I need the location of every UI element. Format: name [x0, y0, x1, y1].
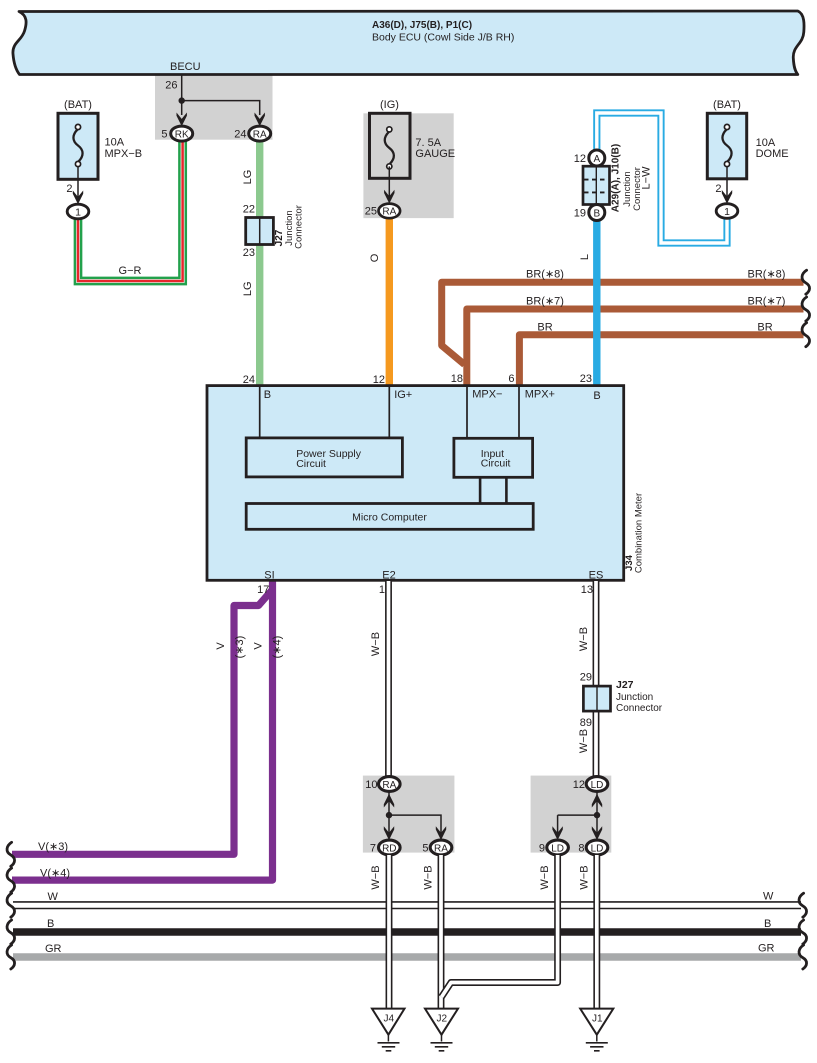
svg-text:LG: LG	[242, 281, 254, 296]
arrow up into RA 10	[384, 794, 394, 808]
micro computer box	[246, 504, 533, 530]
ground J1	[580, 1009, 613, 1051]
wire BR	[519, 335, 803, 386]
svg-text:24: 24	[234, 129, 246, 141]
svg-text:B: B	[593, 209, 600, 220]
svg-text:J2: J2	[437, 1014, 448, 1025]
svg-text:L: L	[579, 254, 591, 260]
power supply circuit box	[246, 438, 402, 477]
svg-text:Connector: Connector	[632, 167, 643, 211]
svg-text:Junction: Junction	[616, 692, 653, 703]
svg-text:5: 5	[422, 843, 428, 855]
svg-text:ES: ES	[589, 570, 604, 582]
svg-text:A29(A), J10(B): A29(A), J10(B)	[611, 144, 622, 212]
wire BR(*7)	[467, 309, 804, 386]
svg-text:J1: J1	[592, 1014, 603, 1025]
connector oval 1 (MPX-B)	[67, 204, 89, 219]
svg-text:8: 8	[578, 843, 584, 855]
wire L-W double line from DOME 1 to junction A	[597, 113, 727, 243]
svg-text:12: 12	[373, 374, 385, 386]
svg-text:1: 1	[724, 206, 730, 218]
panel BECU branch	[155, 75, 273, 139]
panel E2 branch	[363, 776, 455, 853]
ground J4	[372, 1009, 405, 1051]
arrow up into LD 12	[592, 794, 602, 808]
break B right	[799, 920, 807, 944]
svg-text:10A: 10A	[105, 137, 125, 149]
svg-text:J27: J27	[616, 679, 634, 691]
bus wire GR	[13, 953, 801, 960]
wire BR(*8)	[442, 282, 804, 364]
svg-text:O: O	[369, 253, 381, 262]
panel ES branch	[531, 776, 612, 853]
svg-text:LD: LD	[591, 780, 604, 791]
arrow down into RD 7	[384, 826, 394, 840]
svg-text:GR: GR	[45, 943, 62, 955]
svg-text:LD: LD	[551, 844, 564, 855]
svg-text:(BAT): (BAT)	[713, 99, 741, 111]
svg-text:B: B	[593, 390, 600, 402]
junction dot ES branch	[594, 812, 600, 818]
input circuit box	[454, 438, 533, 477]
svg-text:BR(∗8): BR(∗8)	[526, 269, 564, 281]
wire W-B from E2 to RA 10	[385, 581, 392, 777]
svg-text:LD: LD	[591, 844, 604, 855]
svg-text:G−R: G−R	[119, 265, 142, 277]
svg-text:W−B: W−B	[579, 865, 591, 889]
svg-text:Connector: Connector	[616, 703, 663, 714]
break V(*4) left	[7, 868, 15, 892]
svg-text:LG: LG	[242, 170, 254, 185]
svg-text:BR: BR	[757, 321, 772, 333]
svg-text:RK: RK	[175, 130, 189, 141]
bus bar A36(D), J75(B), P1(C) Body ECU	[13, 11, 804, 75]
wire W-B RA5 to ground J2	[438, 855, 445, 1008]
svg-text:(∗4): (∗4)	[272, 636, 284, 659]
bus wire W	[13, 901, 801, 909]
svg-text:7: 7	[370, 843, 376, 855]
wire L from junction B to meter pin 23	[593, 218, 600, 386]
svg-text:J4: J4	[384, 1014, 395, 1025]
panel IG fuse	[363, 113, 453, 218]
junction connector J27 right (pins 29/89)	[583, 686, 610, 711]
junction connector A29(A), J10(B)	[583, 150, 610, 221]
svg-text:A: A	[593, 154, 600, 165]
svg-text:13: 13	[581, 584, 593, 596]
svg-text:Circuit: Circuit	[481, 458, 511, 470]
connector oval RA pin 10	[379, 777, 401, 792]
svg-text:12: 12	[573, 779, 585, 791]
break GR right	[799, 945, 807, 969]
svg-text:W−B: W−B	[370, 865, 382, 889]
junction connector J27 left	[246, 218, 274, 245]
svg-text:BECU: BECU	[170, 61, 201, 73]
svg-text:Micro Computer: Micro Computer	[352, 511, 427, 523]
connector oval LD pin 12	[586, 777, 608, 792]
svg-text:RA: RA	[434, 844, 448, 855]
svg-text:W−B: W−B	[578, 729, 590, 753]
arrow down into LD 9	[552, 826, 562, 840]
svg-text:IG+: IG+	[394, 389, 412, 401]
break B left	[7, 920, 15, 944]
wire W-B RD7 to ground J4	[386, 855, 393, 1008]
svg-text:Combination Meter: Combination Meter	[634, 493, 645, 573]
svg-text:(BAT): (BAT)	[64, 99, 92, 111]
svg-text:BR(∗7): BR(∗7)	[748, 295, 786, 307]
bus wire B	[13, 928, 801, 935]
svg-text:2: 2	[66, 183, 72, 195]
wire LG from RA to meter pin 24	[256, 139, 263, 386]
meter pin bottom labels	[264, 570, 603, 582]
svg-text:V: V	[253, 642, 265, 650]
wire BECU vertical pin 26	[182, 74, 260, 115]
svg-text:10: 10	[365, 779, 377, 791]
arrow into RA 24	[255, 113, 265, 127]
branch lines E2	[389, 792, 441, 834]
svg-text:W−B: W−B	[578, 627, 590, 651]
connector oval RK pin 5	[171, 126, 193, 141]
connector oval LD pin 8	[586, 840, 608, 855]
svg-text:SI: SI	[264, 570, 274, 582]
svg-text:19: 19	[574, 208, 586, 220]
svg-text:MPX−: MPX−	[472, 389, 502, 401]
svg-text:89: 89	[580, 717, 592, 729]
svg-text:2: 2	[715, 183, 721, 195]
ground J2	[425, 1009, 458, 1051]
connector oval RD pin 7	[379, 840, 401, 855]
svg-text:23: 23	[580, 373, 592, 385]
connector oval RA pin 24	[249, 126, 271, 141]
svg-text:Connector: Connector	[294, 205, 305, 249]
junction dot BECU branch	[179, 97, 185, 103]
rotated wire labels	[215, 166, 653, 890]
svg-text:25: 25	[365, 206, 377, 218]
svg-text:B: B	[47, 918, 54, 930]
svg-text:W−B: W−B	[423, 865, 435, 889]
svg-text:W: W	[48, 891, 59, 903]
svg-text:W−B: W−B	[539, 865, 551, 889]
wire W-B LD9 jog to ground J2	[442, 855, 558, 997]
svg-text:6: 6	[508, 373, 514, 385]
junction dot E2 branch	[386, 812, 392, 818]
svg-text:A36(D), J75(B), P1(C): A36(D), J75(B), P1(C)	[372, 20, 472, 31]
lines input circuit to micro computer	[480, 477, 506, 504]
svg-text:29: 29	[580, 672, 592, 684]
svg-text:BR(∗8): BR(∗8)	[748, 269, 786, 281]
svg-text:BR: BR	[537, 321, 552, 333]
svg-text:22: 22	[243, 204, 255, 216]
connector oval RA 25	[379, 204, 401, 219]
break V(*3) left	[7, 842, 15, 866]
fuse 10A MPX-B	[58, 113, 98, 204]
wire W-B LD8 to ground J1	[593, 855, 600, 1008]
internal line MPX- to input circuit	[466, 387, 468, 439]
svg-text:17: 17	[257, 584, 269, 596]
connector oval LD pin 9	[547, 840, 569, 855]
svg-text:V(∗3): V(∗3)	[38, 841, 68, 853]
break BR(*7) right	[802, 297, 810, 321]
svg-text:5: 5	[161, 129, 167, 141]
svg-text:B: B	[264, 389, 271, 401]
internal line IG+ to power supply	[388, 387, 390, 438]
connector oval RA pin 5	[430, 840, 452, 855]
svg-text:12: 12	[574, 153, 586, 165]
svg-text:V: V	[215, 642, 227, 650]
combination meter J34 box	[207, 386, 624, 581]
wire O (orange) from RA 25 to meter pin 12	[386, 216, 393, 386]
connector oval 1 (DOME)	[716, 204, 738, 219]
svg-text:24: 24	[243, 374, 255, 386]
svg-text:1: 1	[379, 584, 385, 596]
svg-text:W−B: W−B	[370, 632, 382, 656]
svg-text:MPX−B: MPX−B	[105, 148, 143, 160]
arrow down into RA 5	[436, 826, 446, 840]
svg-text:B: B	[764, 918, 771, 930]
svg-text:RA: RA	[382, 207, 396, 218]
svg-text:18: 18	[451, 373, 463, 385]
wire W-B from ES through J27 to LD 12	[593, 581, 600, 777]
internal line MPX+ to input circuit	[518, 387, 520, 439]
svg-text:RD: RD	[382, 844, 396, 855]
svg-text:BR(∗7): BR(∗7)	[526, 295, 564, 307]
wire V(*4) purple	[12, 581, 273, 880]
svg-text:(IG): (IG)	[380, 99, 399, 111]
svg-text:DOME: DOME	[756, 148, 789, 160]
svg-text:26: 26	[165, 80, 177, 92]
break GR left	[7, 945, 15, 969]
wire G-R (green-red-green) from connector 1 to RK	[75, 141, 186, 284]
arrow into RK	[177, 113, 187, 127]
fuse 10A DOME	[707, 113, 746, 204]
svg-text:1: 1	[75, 207, 81, 219]
svg-text:(∗3): (∗3)	[234, 636, 246, 659]
svg-text:GAUGE: GAUGE	[415, 148, 455, 160]
svg-text:23: 23	[243, 247, 255, 259]
svg-text:GR: GR	[758, 943, 775, 955]
svg-text:9: 9	[539, 843, 545, 855]
svg-text:W: W	[763, 891, 774, 903]
svg-text:MPX+: MPX+	[525, 389, 555, 401]
break W left	[7, 893, 15, 917]
svg-text:Body ECU (Cowl Side J/B RH): Body ECU (Cowl Side J/B RH)	[372, 32, 514, 44]
svg-text:RA: RA	[382, 780, 396, 791]
internal line pin24 B to power supply	[259, 387, 261, 438]
meter pin top labels	[264, 389, 601, 402]
fuse 7.5A GAUGE	[370, 113, 411, 203]
break W right	[799, 893, 807, 917]
branch lines ES	[558, 792, 597, 834]
break BR right	[802, 323, 810, 347]
svg-text:V(∗4): V(∗4)	[40, 868, 70, 880]
wire V(*3) purple	[12, 590, 273, 855]
svg-text:RA: RA	[253, 130, 267, 141]
svg-text:E2: E2	[382, 570, 395, 582]
arrow down into LD 8	[592, 826, 602, 840]
break BR(*8) right	[802, 270, 810, 294]
svg-text:Circuit: Circuit	[296, 458, 326, 470]
